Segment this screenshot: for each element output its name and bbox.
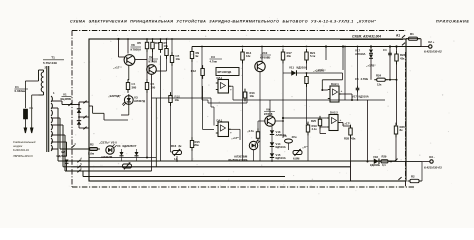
terminal X3 xyxy=(430,160,433,163)
capacitor C6 xyxy=(285,139,293,143)
wire xyxy=(128,106,130,115)
svg-text:12к: 12к xyxy=(246,54,251,58)
wire V8 base xyxy=(119,56,125,58)
wire xyxy=(98,148,106,150)
svg-text:R25: R25 xyxy=(311,119,317,123)
wire plug L xyxy=(24,81,26,108)
wire xyxy=(121,114,129,116)
pin tick 5 xyxy=(77,162,82,168)
wire xyxy=(307,124,309,125)
trimmer R3 (АПЧ) xyxy=(123,162,132,169)
wire +17V bus xyxy=(192,46,421,48)
enclosure border top (dash-dot) xyxy=(72,30,406,32)
wire xyxy=(182,152,191,154)
svg-text:„+17“: „+17“ xyxy=(231,136,239,140)
pin tick 1 xyxy=(68,100,73,106)
resistor R8a xyxy=(165,45,168,59)
op-amp DA1.1 xyxy=(216,80,231,94)
wire xyxy=(357,83,359,86)
wire xyxy=(351,94,353,100)
svg-text:360: 360 xyxy=(132,86,137,90)
wire xyxy=(66,164,68,172)
scan speckle (decorative) xyxy=(60,16,454,194)
svg-text:А1: А1 xyxy=(396,34,400,38)
svg-text:R2: R2 xyxy=(90,143,94,147)
svg-text:5.702.049: 5.702.049 xyxy=(43,61,57,65)
secondary coil bumps xyxy=(51,96,52,151)
tap rail A xyxy=(59,118,61,149)
svg-text:43к: 43к xyxy=(351,137,356,141)
junction output line xyxy=(367,161,369,163)
transistor V9 xyxy=(265,116,275,126)
wire xyxy=(171,39,173,56)
wire R19 down xyxy=(307,132,309,161)
svg-text:„4.7к: „4.7к xyxy=(247,129,254,133)
op-amp DA1.2 xyxy=(216,122,231,137)
svg-text:+: + xyxy=(340,118,342,122)
wire xyxy=(93,112,104,114)
svg-text:R2: R2 xyxy=(411,175,415,179)
svg-text:4.7мк: 4.7мк xyxy=(210,60,218,64)
svg-text:5: 5 xyxy=(80,162,82,166)
resistor R4 xyxy=(126,79,135,93)
junction xyxy=(344,46,346,48)
wire xyxy=(136,157,138,162)
label V10 bar xyxy=(260,54,271,56)
wire C3 column xyxy=(201,47,203,69)
junction xyxy=(282,120,284,122)
wire fuse to plug xyxy=(24,119,26,128)
wire R2 left xyxy=(89,148,98,150)
junction xyxy=(357,99,359,101)
wire xyxy=(246,92,248,103)
wire bridge in left xyxy=(76,104,79,106)
pin tick b1 xyxy=(83,101,86,104)
board A1 frame xyxy=(89,39,406,181)
resistor R2 xyxy=(87,148,100,151)
svg-text:+: + xyxy=(341,89,343,93)
svg-text:V17: V17 xyxy=(355,49,360,53)
wire diode stack top xyxy=(271,126,273,130)
wire xyxy=(322,89,328,91)
svg-text:R28: R28 xyxy=(344,137,350,141)
junction xyxy=(160,38,162,40)
label V9 bar xyxy=(264,111,275,113)
tap rail B xyxy=(57,108,59,161)
wire xyxy=(320,126,327,128)
junction xyxy=(282,117,284,119)
resistor R1 xyxy=(406,37,420,40)
resistor R24 xyxy=(374,78,388,81)
wire xyxy=(92,106,94,113)
junction xyxy=(370,45,372,47)
pin tick b2 xyxy=(83,116,86,119)
wire xyxy=(39,69,44,71)
diode V7 xyxy=(135,152,139,156)
wire to primary top xyxy=(25,80,38,82)
resistor R19 xyxy=(306,122,309,136)
wire V8 collector xyxy=(127,39,129,54)
wire DA1.2 out xyxy=(229,128,241,130)
resistor R10 xyxy=(169,92,180,106)
svg-text:V18: V18 xyxy=(373,155,378,159)
svg-text:R1: R1 xyxy=(410,32,414,36)
svg-text:СХЕМА ЭЛЕКТРИЧЕСКАЯ ПРИНЦИПИ: СХЕМА ЭЛЕКТРИЧЕСКАЯ ПРИНЦИПИАЛЬНАЯ УСТРО… xyxy=(70,20,377,24)
plug pin arrow 2 xyxy=(31,128,33,133)
resistor R17 xyxy=(281,49,284,64)
wire xyxy=(82,171,84,177)
wire xyxy=(43,70,45,72)
junction xyxy=(306,46,308,48)
resistor R7 xyxy=(159,39,162,53)
secondary tap 2 xyxy=(51,107,58,109)
junction xyxy=(389,45,391,47)
svg-text:10к: 10к xyxy=(175,98,180,102)
svg-text:КД510А: КД510А xyxy=(276,145,286,149)
svg-text:0.033мк: 0.033мк xyxy=(15,89,27,93)
wire R12 to DA1.2 xyxy=(202,86,204,130)
resistor R3 xyxy=(151,39,154,52)
wire xyxy=(214,125,218,127)
svg-text:КД202В: КД202В xyxy=(57,154,68,158)
secondary tap 5 xyxy=(51,134,58,136)
resistor R5 xyxy=(145,39,148,52)
wire xyxy=(166,39,168,48)
svg-text:0,1: 0,1 xyxy=(382,163,386,167)
LED V12 ИНДИКАТОР xyxy=(249,140,260,150)
svg-text:Соединительный: Соединительный xyxy=(13,140,36,144)
svg-text:20в: 20в xyxy=(194,143,199,147)
terminal X2 xyxy=(429,45,432,48)
wire y157 inside board xyxy=(89,157,156,159)
svg-text:АЛ310А: АЛ310А xyxy=(355,52,366,56)
bottom bus wire y161 xyxy=(58,160,396,162)
wire xyxy=(58,134,65,136)
wire V9 collector up xyxy=(269,100,271,116)
pin tick 3 xyxy=(71,142,76,148)
label VT2 bar xyxy=(149,58,159,60)
wire R15 down xyxy=(191,148,193,162)
wire xyxy=(210,98,212,107)
svg-text:43к: 43к xyxy=(287,54,292,58)
secondary tap 7 xyxy=(51,148,58,150)
wire DA1.1 out xyxy=(229,85,234,87)
wire DA2.2 out xyxy=(338,122,343,124)
wire xyxy=(288,143,290,150)
wire xyxy=(79,127,89,129)
bottom wire y176 xyxy=(83,176,285,178)
wire R17 down xyxy=(282,60,284,138)
wire xyxy=(48,66,50,152)
pin tick X3 xyxy=(394,159,397,162)
wire R10 down xyxy=(170,103,172,153)
wire xyxy=(211,106,214,108)
wire R5 down xyxy=(146,49,148,80)
enclosure border right (dash-dot) xyxy=(405,52,407,187)
junction xyxy=(171,38,173,40)
svg-text:„+17“: „+17“ xyxy=(343,122,351,126)
svg-text:6.425.030-02: 6.425.030-02 xyxy=(424,50,442,54)
wire R1 down xyxy=(420,39,422,47)
svg-text:F1: F1 xyxy=(30,106,34,110)
wire R24 to R23 rail xyxy=(386,79,397,81)
fuse F1 xyxy=(23,109,27,119)
wire xyxy=(201,76,203,101)
svg-text:4.7Мк: 4.7Мк xyxy=(361,77,369,81)
diode V2 xyxy=(65,160,69,164)
svg-text:V11: V11 xyxy=(289,66,294,70)
wire xyxy=(257,121,259,131)
wire xyxy=(88,147,90,149)
secondary tap 3 xyxy=(51,117,58,119)
wire xyxy=(289,149,294,151)
wire xyxy=(296,72,306,74)
wire xyxy=(114,149,121,151)
wire xyxy=(232,86,234,100)
wire V8 to R6 col xyxy=(135,59,148,61)
svg-text:6.240.001-01: 6.240.001-01 xyxy=(13,148,29,152)
svg-text:5.1к: 5.1к xyxy=(310,54,316,58)
wire inside board xyxy=(89,105,93,107)
svg-text:„ЗАРЯД“: „ЗАРЯД“ xyxy=(108,94,122,98)
wire fb top xyxy=(322,79,342,81)
wire xyxy=(136,149,138,152)
wire tap to R2 y149 xyxy=(60,148,90,150)
transistor V2/КТ608 xyxy=(147,65,157,75)
junction xyxy=(166,38,168,40)
secondary tap 1 xyxy=(51,100,58,102)
wire xyxy=(58,141,67,143)
junction xyxy=(396,79,398,81)
capacitor C5 xyxy=(356,86,360,92)
wire R22 down xyxy=(306,84,308,125)
wire xyxy=(61,101,63,105)
wire primary bottom xyxy=(32,94,39,96)
svg-text:шнурок: шнурок xyxy=(13,145,23,148)
wire mid bus y100 xyxy=(233,99,385,101)
svg-text:+: + xyxy=(230,88,232,92)
wire bridge mid out xyxy=(79,116,89,118)
resistor R23 xyxy=(395,51,398,65)
wire xyxy=(253,150,255,161)
svg-text:КД510А: КД510А xyxy=(276,156,286,160)
svg-text:V2: V2 xyxy=(149,55,153,59)
label T1 fraction bar xyxy=(43,59,64,61)
svg-text:R29: R29 xyxy=(382,155,387,159)
wire xyxy=(258,120,265,122)
svg-text:ЛВП4Па-4РН III: ЛВП4Па-4РН III xyxy=(12,154,33,158)
svg-text:КД510А: КД510А xyxy=(297,66,308,70)
junction R29 out xyxy=(390,160,392,162)
wire to X3 xyxy=(389,160,422,162)
wire x350 corner down xyxy=(350,161,352,181)
svg-text:R16: R16 xyxy=(171,144,177,148)
wire xyxy=(216,82,218,84)
wire xyxy=(121,149,123,152)
wire xyxy=(244,91,246,93)
wire V9 base xyxy=(275,120,283,122)
wire xyxy=(78,125,80,128)
trimmer R27 xyxy=(293,149,302,156)
wire xyxy=(271,135,273,142)
bottom wire y171 xyxy=(65,170,152,172)
junction xyxy=(152,38,154,40)
svg-text:V4: V4 xyxy=(117,144,121,148)
wire V8 base up xyxy=(118,39,120,57)
junction xyxy=(117,38,119,40)
op-amp DA2.2 xyxy=(327,115,340,131)
capacitor C4 xyxy=(388,51,392,57)
wire xyxy=(257,138,259,141)
wire xyxy=(63,166,73,168)
pin tick a xyxy=(402,35,405,38)
svg-text:1: 1 xyxy=(71,100,73,104)
wire xyxy=(58,100,62,102)
junction xyxy=(357,46,359,48)
wire C5 up xyxy=(357,47,359,87)
wire xyxy=(46,66,48,152)
wire R14 down xyxy=(242,60,244,161)
wire R23 down xyxy=(396,61,398,125)
primary coil bumps xyxy=(41,72,43,92)
wire xyxy=(320,133,326,135)
junction xyxy=(146,38,148,40)
wire xyxy=(171,151,174,153)
svg-text:R5: R5 xyxy=(137,41,141,45)
svg-text:„СЕТЬ“ V5 //: „СЕТЬ“ V5 // xyxy=(99,141,117,145)
wire xyxy=(342,73,344,80)
svg-text:КТ805А: КТ805А xyxy=(131,48,143,52)
trimmer R16 xyxy=(173,149,182,156)
svg-text:V17: V17 xyxy=(352,95,357,99)
wire V17 down xyxy=(370,59,372,80)
resistor R21 xyxy=(305,49,308,64)
wire xyxy=(357,92,359,100)
wire R6 down to y157 xyxy=(146,90,148,158)
resistor R8 xyxy=(170,52,179,66)
wire V10 emitter down xyxy=(259,72,261,161)
svg-text:ПРИЛОЖЕНИЕ: ПРИЛОЖЕНИЕ xyxy=(436,20,470,24)
pin tick 6 xyxy=(77,166,82,172)
wire to V18 node xyxy=(367,100,369,162)
svg-text:КД202В: КД202В xyxy=(123,144,133,148)
wire R9 top xyxy=(191,47,193,51)
svg-text:„+17 “: „+17 “ xyxy=(113,66,122,70)
diode V14 xyxy=(270,142,274,146)
resistor R6 xyxy=(145,79,154,93)
wire xyxy=(39,94,44,96)
svg-text:КЦ405Б: КЦ405Б xyxy=(61,97,72,101)
wire xyxy=(319,126,321,134)
svg-text:С5: С5 xyxy=(355,77,359,81)
wire xyxy=(207,100,209,103)
junction xyxy=(389,79,391,81)
wire xyxy=(239,129,241,140)
sub-board edge x156 xyxy=(155,98,157,167)
wire xyxy=(103,113,105,120)
svg-text:СХЕМ. А3УА31.004: СХЕМ. А3УА31.004 xyxy=(352,35,381,39)
wire V8 emitter down xyxy=(128,65,130,80)
wire xyxy=(389,57,391,80)
wire xyxy=(422,161,430,163)
svg-text:КТ608: КТ608 xyxy=(264,112,273,116)
wire x343 from bus xyxy=(342,47,344,71)
svg-text:4.1к: 4.1к xyxy=(312,127,318,131)
wire R9 down long xyxy=(191,59,193,141)
label C3 bar xyxy=(210,58,223,60)
svg-text:DA2.1: DA2.1 xyxy=(331,82,339,86)
svg-text:47м: 47м xyxy=(292,135,297,139)
resistor R30 xyxy=(408,179,422,182)
svg-text:„+17В“: „+17В“ xyxy=(316,69,326,73)
svg-text:АЛ307М: АЛ307М xyxy=(101,155,113,159)
bottom bus wire y167 xyxy=(73,166,351,168)
wire xyxy=(58,117,60,119)
resistor R9 xyxy=(190,48,193,62)
wire plug N xyxy=(31,95,33,128)
wire tap1 to bridge xyxy=(62,104,76,106)
svg-text:С6: С6 xyxy=(283,134,287,138)
wire R28 down xyxy=(350,135,352,161)
wire R26 down xyxy=(395,134,397,161)
svg-text:КР140УД1: КР140УД1 xyxy=(218,70,232,74)
junction xyxy=(395,45,397,47)
tap rail D xyxy=(64,135,66,171)
wire xyxy=(213,107,215,126)
plug pin arrow 1 xyxy=(24,128,26,133)
pin tick 4 xyxy=(77,156,82,162)
svg-text:1: 1 xyxy=(53,91,55,95)
junction xyxy=(306,72,308,74)
svg-text:Х3 -: Х3 - xyxy=(429,155,435,159)
resistor R29 xyxy=(379,160,391,163)
svg-text:„,С“: „,С“ xyxy=(302,145,308,149)
svg-text:2: 2 xyxy=(45,66,47,70)
junction xyxy=(78,116,80,118)
svg-text:ИНДИКАТОРА: ИНДИКАТОРА xyxy=(228,158,247,162)
resistor R22a xyxy=(305,73,308,87)
diode V17b xyxy=(369,55,373,59)
svg-text:3: 3 xyxy=(74,142,76,146)
junction xyxy=(261,46,263,48)
junction xyxy=(351,99,353,101)
svg-text:КТ608: КТ608 xyxy=(149,60,158,64)
wire DA2.1 out xyxy=(339,93,352,95)
junction xyxy=(127,38,129,40)
svg-text:С4: С4 xyxy=(383,48,387,52)
junction xyxy=(321,89,323,91)
wire to charge circuit xyxy=(104,119,128,121)
resistor R26 xyxy=(394,123,397,138)
resistor R13 xyxy=(243,89,246,102)
svg-text:6.425.030-03: 6.425.030-03 xyxy=(424,166,442,170)
wire R7 column down xyxy=(160,56,162,162)
transistor V10 xyxy=(255,61,265,71)
wire xyxy=(271,158,273,161)
resistor R15 xyxy=(190,137,193,151)
secondary tap 4 xyxy=(51,124,58,126)
svg-text:V8: V8 xyxy=(131,43,135,47)
enclosure border bottom (dash-dot) xyxy=(72,186,414,188)
wire xyxy=(350,126,352,128)
diode V4 xyxy=(120,152,124,156)
tap rail E to V2 xyxy=(66,142,68,156)
wire xyxy=(307,123,309,125)
junction bus x326 xyxy=(325,45,327,47)
wire fb1 xyxy=(202,99,208,101)
LED V5 СЕТЬ xyxy=(106,144,117,154)
pin tick X4 xyxy=(398,177,401,180)
